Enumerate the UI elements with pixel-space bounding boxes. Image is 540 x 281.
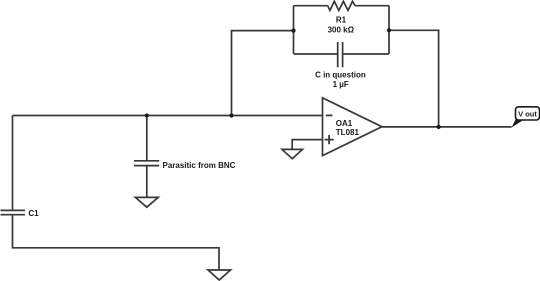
ground bottom-left [208, 270, 231, 280]
svg-text:300 kΩ: 300 kΩ [328, 26, 355, 35]
wire left vertical to C1 [12, 116, 14, 211]
svg-text:C in question: C in question [315, 71, 366, 80]
wire parasitic cap to ground [146, 166, 148, 198]
ground parasitic [135, 197, 158, 207]
wire main input horizontal [13, 115, 323, 117]
capacitor C in question [338, 42, 343, 67]
svg-text:V out: V out [518, 109, 537, 118]
wire loop top left segment [294, 5, 328, 7]
capacitor parasitic from BNC [134, 161, 159, 166]
wire loop right vertical [388, 6, 390, 54]
wire C1 bottom to ground run [13, 215, 220, 270]
svg-text:C1: C1 [28, 209, 39, 218]
capacitor C1 [1, 210, 26, 214]
op-amp plus input marker [325, 135, 334, 144]
op-amp minus input marker [326, 114, 333, 116]
wire parasitic cap drop [146, 116, 148, 161]
node junction loop right [387, 28, 391, 32]
ground op-amp plus [282, 149, 303, 158]
flag V out [512, 107, 540, 128]
svg-text:R1: R1 [336, 16, 347, 25]
node junction main-feedback [229, 113, 233, 117]
svg-text:TL081: TL081 [336, 128, 360, 137]
svg-text:Parasitic from BNC: Parasitic from BNC [163, 161, 236, 170]
op-amp OA1 triangle [323, 98, 382, 156]
wire feedback tap up [232, 31, 294, 116]
wire loop top right segment [355, 5, 389, 7]
wire loop bottom left segment [294, 53, 338, 55]
wire op-amp output [382, 126, 512, 128]
node junction loop left [291, 29, 295, 33]
wire feedback return right and down [389, 30, 439, 127]
wire loop left vertical [293, 6, 295, 54]
svg-text:OA1: OA1 [336, 119, 353, 128]
wire noninverting input to ground [292, 140, 322, 150]
resistor R1 [328, 1, 355, 10]
node junction main-parasitic [145, 113, 149, 117]
svg-text:1 µF: 1 µF [333, 80, 349, 89]
wire loop bottom right segment [343, 53, 389, 55]
node junction output-feedback [437, 125, 441, 129]
